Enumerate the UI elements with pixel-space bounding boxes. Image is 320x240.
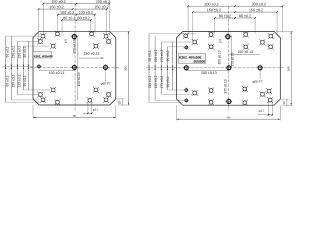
svg-text:50 ±0.2: 50 ±0.2 [23,75,27,86]
callout phi17 right plate [267,102,269,116]
svg-text:150 ±0.2: 150 ±0.2 [154,49,158,62]
dim 380 left plate [32,105,34,119]
bore center left plate [72,65,76,69]
dim row1 left plate 150/150 [43,3,109,5]
left chain line b [10,36,12,100]
svg-text:390: 390 [286,66,290,71]
left chain line c [16,42,18,95]
hole cluster bottom-right [104,98,108,102]
hole cluster bottom-left [41,98,45,102]
dim row2 left plate 150/150 [39,8,107,10]
plate outline right (K362 400x500) [177,32,281,106]
hole cluster top-right [104,34,108,38]
svg-text:200 ±0.2: 200 ±0.2 [252,2,266,6]
svg-text:150 ±0.2: 150 ±0.2 [11,45,15,58]
svg-text:100 ±0.2: 100 ±0.2 [79,11,93,15]
svg-text:100 ±0.2: 100 ±0.2 [60,11,74,15]
svg-text:150 ±0.2: 150 ±0.2 [94,5,108,9]
svg-text:150 ±0.13: 150 ±0.13 [84,52,100,56]
hole cluster right plate top-right [269,34,273,38]
hole top-center right plate [226,35,230,39]
svg-text:150 ±0.2: 150 ±0.2 [11,74,15,87]
callout bore dia left plate [105,69,107,81]
svg-text:150 ±0.13: 150 ±0.13 [237,50,253,54]
svg-text:135 ±0.2: 135 ±0.2 [154,75,158,88]
svg-text:80 ±0.2: 80 ±0.2 [63,16,75,20]
svg-text:150 ±0.2: 150 ±0.2 [96,0,110,4]
svg-text:150 ±0.2: 150 ±0.2 [148,75,152,88]
right plate chain line c [160,42,162,94]
svg-text:200 ±0.2: 200 ±0.2 [204,2,218,6]
centerline horizontal right plate [174,67,284,69]
dim row3 right plate 80/80 [215,17,255,19]
left chain line a [5,36,7,102]
centerline vertical left plate [74,4,76,111]
hole top-center left plate [72,35,76,39]
svg-text:φ15: φ15 [220,38,222,43]
svg-text:150 ±0.13: 150 ±0.13 [218,50,222,64]
right plate chain line a [148,34,150,103]
dim vertical bottom 150 [77,67,79,100]
svg-text:150 ±0.2: 150 ±0.2 [207,8,221,12]
hole cluster top-left [41,34,45,38]
dim 150 center-left holes [39,69,74,71]
dim 390 right plate [290,32,292,106]
dim 150 top-right [79,57,104,59]
holes right plate row2 [209,45,213,49]
svg-text:φ60 F7: φ60 F7 [252,80,262,84]
svg-text:50 ±0.2: 50 ±0.2 [148,50,152,61]
svg-text:135 ±0.2: 135 ±0.2 [17,74,21,87]
svg-text:150 ±0.13: 150 ±0.13 [231,52,235,66]
mid row extension line left [3,66,34,68]
svg-text:150 ±0.13: 150 ±0.13 [77,72,81,86]
dim 400 right plate [176,105,178,120]
svg-text:30: 30 [118,101,122,104]
svg-text:φ60 F7: φ60 F7 [100,82,110,86]
hole cluster right plate bottom-left [185,89,188,92]
svg-text:φ17: φ17 [259,109,265,113]
dim 30 chamfer right plate [286,99,288,105]
dim row4 left plate 80/80 [62,19,91,21]
svg-text:390: 390 [124,66,128,71]
svg-text:175 ±0.2: 175 ±0.2 [160,75,164,88]
dim 390 left plate [127,31,129,105]
svg-text:135 ±0.13: 135 ±0.13 [223,79,227,93]
dim vertical right plate a [231,36,233,68]
callout bore dia right plate [259,70,261,79]
svg-text:200 ±0.13: 200 ±0.13 [201,71,217,75]
svg-text:150 ±0.13: 150 ±0.13 [73,39,77,53]
svg-text:60 ±0.2: 60 ±0.2 [6,46,10,57]
svg-text:30: 30 [282,101,286,104]
holes right plate bottom [209,100,213,104]
svg-text:φ15: φ15 [65,38,67,43]
hole mid-left left plate [38,65,41,68]
right plate chain line d [166,47,168,90]
svg-text:90 ±0.2: 90 ±0.2 [23,46,27,57]
svg-text:60 ±0.2: 60 ±0.2 [6,75,10,86]
bore mid-right left plate [104,65,108,69]
hole cluster right plate top-left [184,34,188,38]
dim row2 right plate 150/150 [193,11,277,13]
dim 150 between bores right [229,54,260,56]
left chain line e [28,42,30,90]
bores right plate mid row [184,66,188,70]
plate outline left (K362 400x400) [33,31,116,105]
mid row extension line right [146,67,177,69]
callout phi17 left plate [87,103,89,115]
dim 200 left bores right plate [186,69,229,71]
dim row3 left plate 90/90 [58,14,95,16]
extension lines top chains left plate [42,4,44,35]
dim row1 right plate 200/200 [188,5,283,7]
svg-text:K362_400x400: K362_400x400 [34,54,54,58]
svg-text:50 ±0.2: 50 ±0.2 [166,76,170,87]
svg-text:175 ±0.2: 175 ±0.2 [160,49,164,62]
right plate chain line b [154,36,156,100]
extension lines top chains right plate [187,6,189,35]
dim 30 chamfer left plate [121,99,123,105]
right plate chain line e [172,42,174,90]
svg-text:80 ±0.2: 80 ±0.2 [239,14,251,18]
centerline horizontal left plate [30,66,119,68]
svg-text:150 ±0.13: 150 ±0.13 [49,71,65,75]
centerline vertical right plate [227,6,229,110]
svg-text:90 ±0.2: 90 ±0.2 [166,50,170,61]
svg-text:φ17: φ17 [93,108,99,112]
svg-text:150 ±0.2: 150 ±0.2 [17,45,21,58]
svg-text:500/500: 500/500 [193,60,205,64]
svg-text:80 ±0.2: 80 ±0.2 [219,14,231,18]
dim vertical top 150 [77,36,79,68]
svg-text:150 ±0.2: 150 ±0.2 [51,0,65,4]
svg-text:150 ±0.2: 150 ±0.2 [249,8,263,12]
left chain line d [22,46,24,90]
svg-text:80 ±0.2: 80 ±0.2 [78,16,90,20]
label K362_400x500 500/500 [178,54,206,63]
label K362_400x400 [33,52,52,58]
svg-text:150 ±0.2: 150 ±0.2 [49,5,63,9]
hole cluster right plate bottom-right [243,87,247,91]
